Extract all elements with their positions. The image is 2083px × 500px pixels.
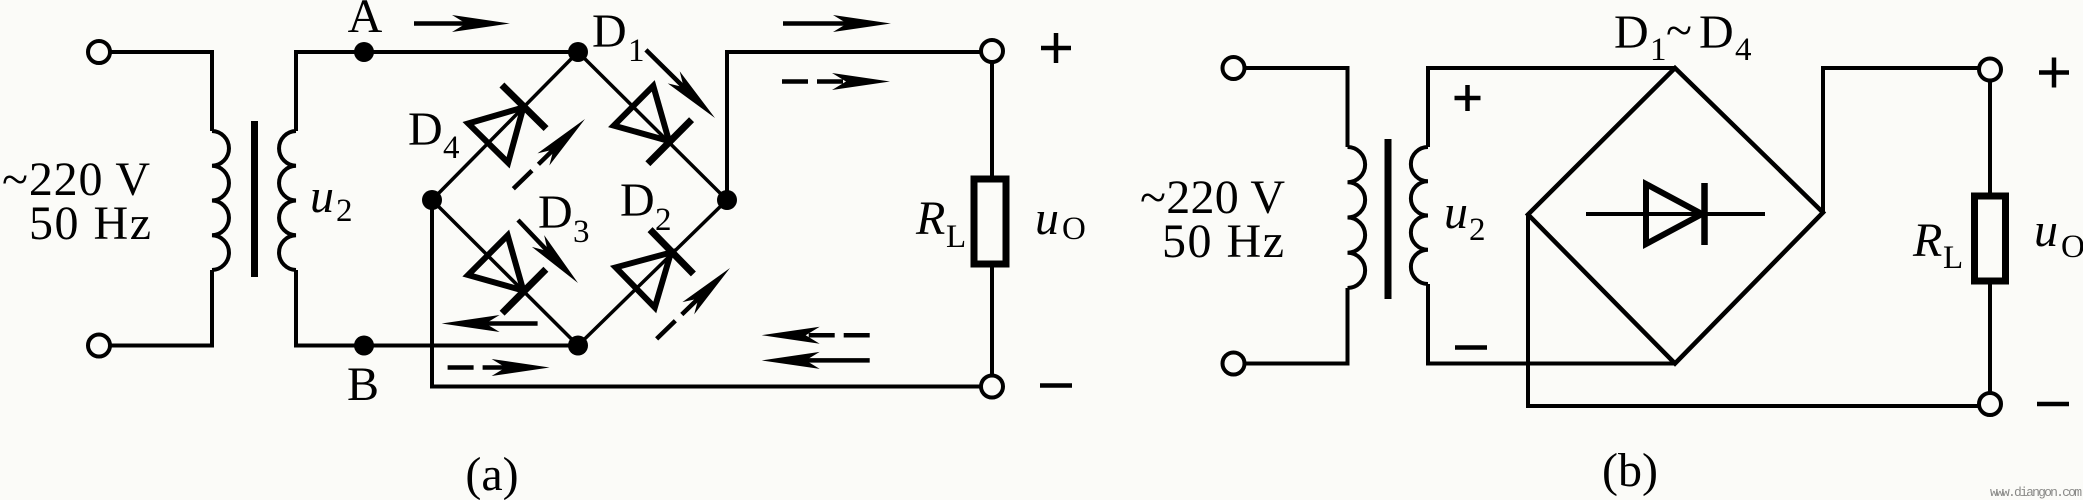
transformer T2 core (b): [1385, 139, 1392, 299]
wire: bottom AC lead to primary (a): [110, 344, 212, 348]
terminal: + output (a): [981, 40, 1003, 62]
wire: secondary bottom to bridge bottom vertex (b): [1428, 362, 1675, 366]
terminal: + output (b): [1979, 59, 2001, 81]
svg-text:u: u: [310, 170, 334, 223]
node B junction dot: [354, 336, 374, 356]
diode D2: [614, 230, 694, 310]
svg-text:L: L: [1943, 240, 1963, 276]
current arrow: solid beside D3: [512, 214, 584, 289]
transformer T2 secondary winding u2 (b): [1426, 66, 1430, 147]
node: bridge top junction dot (a): [568, 42, 588, 62]
svg-text:R: R: [1912, 214, 1942, 267]
svg-text:D: D: [1614, 6, 1649, 59]
label - output (a): [1040, 383, 1072, 388]
wire: bottom AC lead to primary (b): [1245, 362, 1348, 366]
current arrow: dashed right below B wire: [448, 359, 550, 376]
diode D1: [612, 84, 692, 164]
current arrow: dashed beside D2: [651, 262, 736, 345]
diode D3: [466, 233, 546, 313]
svg-text:www.diangon.com: www.diangon.com: [1990, 485, 2082, 500]
svg-text:50 Hz: 50 Hz: [29, 197, 151, 250]
wire: bridge arm top-left (a): [432, 52, 578, 200]
transformer T2 primary winding (b): [1346, 66, 1350, 147]
wire: top AC lead to primary (a): [110, 50, 212, 54]
wire: bridge left node down and along - rail (a): [432, 200, 981, 387]
svg-text:1: 1: [1650, 32, 1667, 68]
transformer T1 core (a): [251, 121, 258, 277]
svg-text:D: D: [620, 174, 655, 227]
wire: bridge right vertex up to + output (b): [1823, 68, 1979, 213]
svg-text:3: 3: [573, 214, 590, 250]
label + secondary (b): [1455, 96, 1481, 101]
wire: RL down to - terminal (a): [990, 264, 994, 376]
svg-text:D: D: [1699, 6, 1734, 59]
diode D4: [466, 85, 546, 165]
terminal: AC input bottom (b): [1223, 353, 1245, 375]
figure (a): bridge rectifier detailed circuit: [88, 0, 1086, 500]
transformer T1 primary winding (a): [210, 50, 214, 131]
svg-text:B: B: [347, 358, 379, 411]
wire: + terminal down to RL (b): [1988, 81, 1992, 197]
svg-text:(b): (b): [1602, 444, 1658, 497]
svg-text:4: 4: [443, 130, 460, 166]
label - output (b): [2037, 402, 2069, 407]
svg-text:D: D: [538, 186, 573, 239]
svg-text:~: ~: [1666, 4, 1692, 57]
resistor RL (b): [1975, 196, 2006, 281]
transformer T1 secondary winding u2 (a): [294, 50, 298, 131]
label - secondary (b): [1455, 345, 1487, 350]
bridge block diamond (b): [1528, 68, 1823, 364]
current arrow: dashed right under + wire: [782, 73, 890, 90]
svg-text:4: 4: [1735, 32, 1752, 68]
node A junction dot: [354, 42, 374, 62]
terminal: - output (b): [1979, 393, 2001, 415]
wire: + terminal down to RL (a): [990, 62, 994, 179]
current arrow: solid left above B wire: [442, 315, 538, 332]
svg-text:2: 2: [1469, 212, 1486, 248]
current arrow: dashed left above - rail: [762, 327, 870, 344]
wire: bridge left vertex down and along - rail (b): [1528, 215, 1979, 407]
current arrow: solid right over + wire: [783, 15, 891, 32]
current arrow: solid right over A wire: [414, 15, 510, 32]
wire: bridge right node up to + output (a): [727, 52, 981, 200]
svg-text:u: u: [1035, 192, 1059, 245]
current arrow: solid left above - rail: [762, 352, 870, 369]
wire: bridge arm bottom-left (a): [432, 200, 578, 346]
wire: secondary top to node A and bridge top (a): [296, 50, 578, 54]
node: bridge left junction dot (a): [422, 190, 442, 210]
svg-text:L: L: [946, 219, 966, 255]
wire: bridge arm top-right (a): [578, 52, 727, 200]
resistor RL (a): [974, 179, 1006, 264]
svg-text:u: u: [1444, 186, 1468, 239]
bridge block inner diode symbol (b): [1586, 212, 1765, 216]
terminal: AC input bottom (a): [88, 335, 110, 357]
current arrow: solid beside D1: [640, 44, 721, 124]
svg-text:R: R: [915, 192, 945, 245]
svg-text:50 Hz: 50 Hz: [1162, 215, 1284, 268]
svg-text:2: 2: [655, 202, 672, 238]
wire: bridge arm bottom-right (a): [578, 200, 727, 346]
svg-text:2: 2: [336, 193, 353, 229]
figure (b): bridge rectifier simplified circuit: [1223, 4, 2083, 500]
terminal: AC input top (b): [1223, 57, 1245, 79]
terminal: - output (a): [981, 376, 1003, 398]
svg-text:A: A: [348, 0, 383, 43]
wire: secondary bottom to node B and bridge bottom (a): [296, 344, 578, 348]
terminal: AC input top (a): [88, 41, 110, 63]
svg-text:D: D: [408, 103, 443, 156]
svg-text:D: D: [592, 5, 627, 58]
current arrow: dashed beside D4: [507, 113, 591, 195]
wire: top AC lead to primary (b): [1245, 66, 1348, 70]
svg-text:1: 1: [628, 33, 645, 69]
node: bridge right junction dot (a): [717, 190, 737, 210]
svg-text:(a): (a): [465, 448, 518, 500]
svg-text:O: O: [2061, 229, 2083, 265]
node: bridge bottom junction dot (a): [568, 336, 588, 356]
wire: secondary top to bridge top vertex (b): [1428, 66, 1675, 70]
wire: RL down to - terminal (b): [1988, 281, 1992, 393]
svg-text:u: u: [2034, 204, 2058, 257]
label + output (a): [1041, 46, 1071, 51]
label + output (b): [2039, 70, 2069, 75]
svg-text:O: O: [1062, 211, 1086, 247]
